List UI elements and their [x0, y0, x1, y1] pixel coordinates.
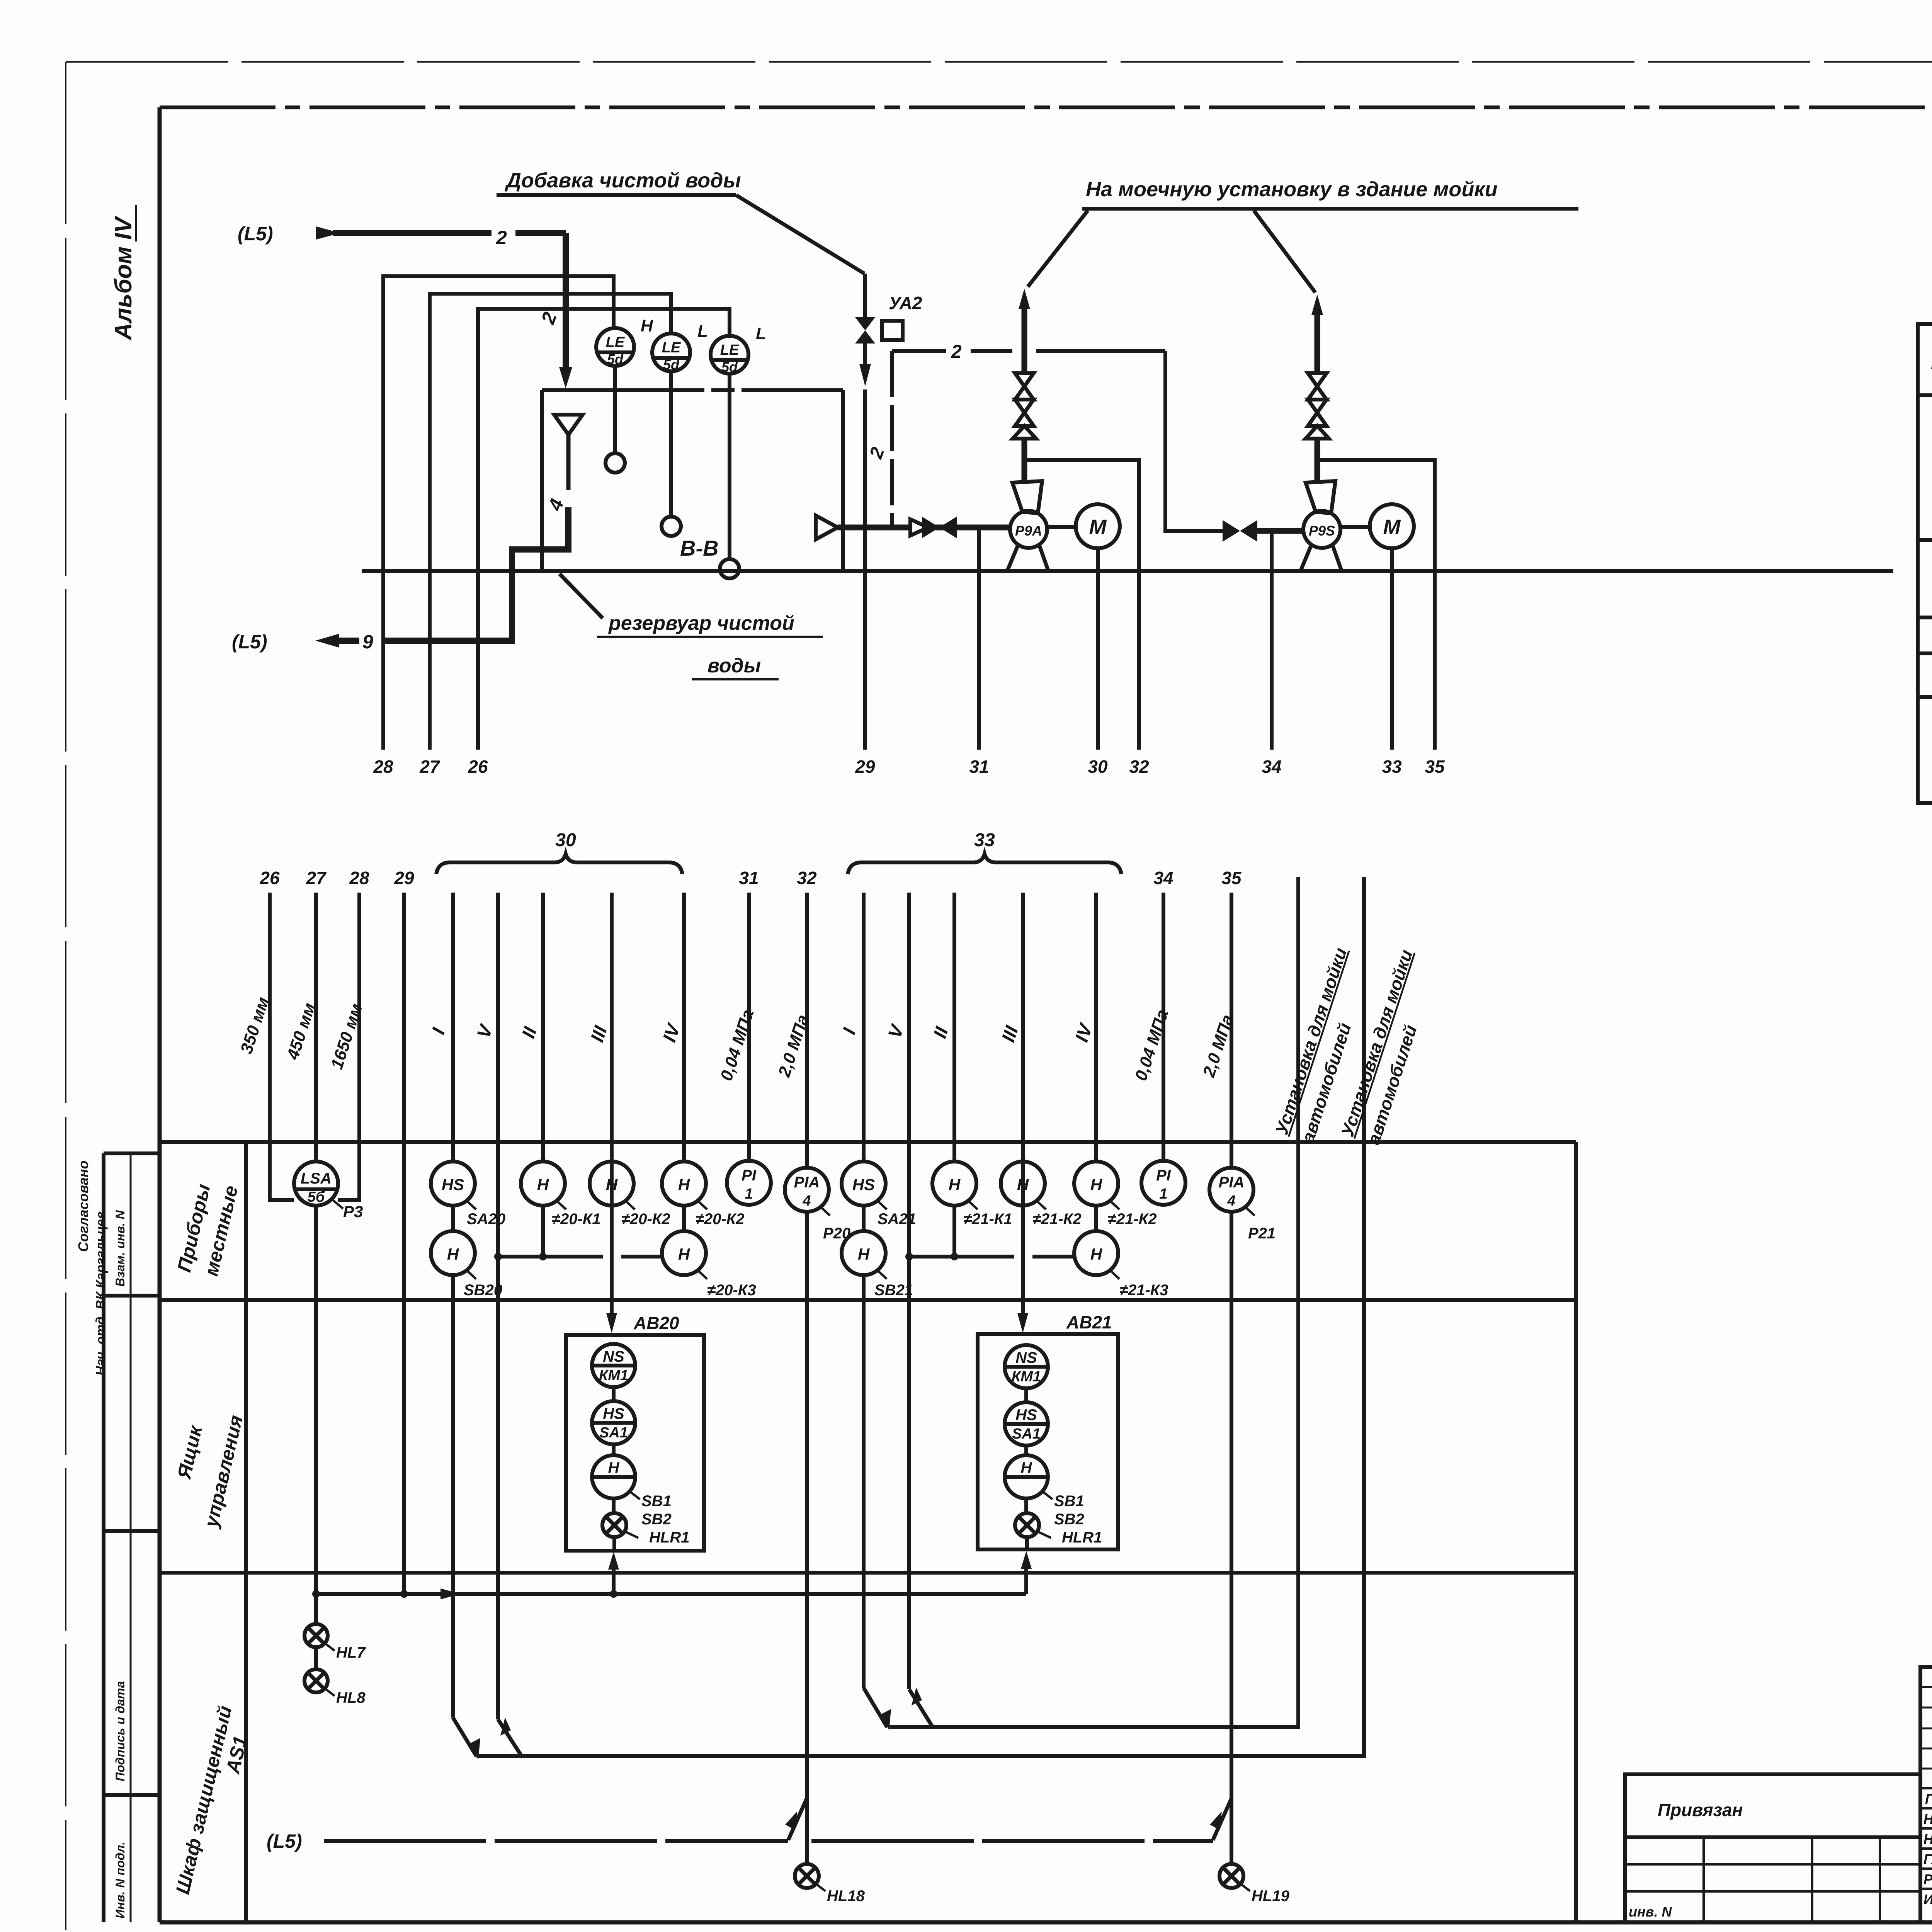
svg-text:32: 32 — [797, 868, 817, 888]
svg-text:V: V — [884, 1021, 908, 1041]
label ≠21-K2b — [1108, 1200, 1157, 1228]
personnel row Инженер Калмыков — [1923, 1891, 1932, 1907]
svg-text:Н: Н — [641, 316, 653, 335]
margin note Подпись и дата — [113, 1681, 127, 1781]
bubble HS SA1 (AB21) — [1005, 1388, 1048, 1446]
label ≠21-K2a — [1032, 1200, 1082, 1228]
svg-text:Инженер: Инженер — [1923, 1891, 1932, 1907]
svg-text:Шкаф защищенный: Шкаф защищенный — [172, 1704, 236, 1896]
svg-text:≠21-К2: ≠21-К2 — [1032, 1211, 1082, 1228]
hop diagonal to HL18 — [785, 1798, 807, 1840]
svg-text:Н: Н — [447, 1245, 459, 1263]
svg-text:L: L — [756, 324, 766, 343]
label ≠20-K2b — [696, 1200, 745, 1228]
leader diagonal to pump1 discharge — [1028, 211, 1088, 287]
row line III/IV — [1918, 651, 1932, 655]
svg-text:РI: РI — [1156, 1167, 1171, 1184]
svg-text:33: 33 — [974, 830, 995, 850]
svg-text:Н.контр: Н.контр — [1923, 1831, 1932, 1847]
labels SB1 SB2 HLR1 (AB21) — [1036, 1492, 1102, 1546]
bubble H 20-K3 — [662, 1231, 706, 1275]
AB21 feed stub with arrow — [1021, 1551, 1032, 1594]
margin note Согласовано — [75, 1160, 91, 1252]
lamp HL18 — [795, 1864, 819, 1888]
svg-text:ЅВ1: ЅВ1 — [1054, 1493, 1084, 1510]
outgoing wire to wash unit 2 — [476, 877, 1364, 1756]
svg-text:РIА: РIА — [794, 1174, 820, 1191]
svg-text:КМ1: КМ1 — [1012, 1369, 1041, 1385]
label ≠20-K2a — [621, 1200, 670, 1228]
frame top (dash-dot) — [160, 105, 1932, 109]
svg-text:4: 4 — [1227, 1193, 1235, 1209]
brace group 30 — [436, 854, 682, 874]
wire I chain down to bus B — [453, 1275, 480, 1759]
make-up water pipe with solenoid valve УА2 — [855, 274, 903, 386]
svg-text:Р21: Р21 — [1248, 1225, 1276, 1242]
svg-text:LЅА: LЅА — [301, 1170, 332, 1187]
svg-text:34: 34 — [1262, 757, 1281, 777]
wire 32 lower — [805, 893, 809, 1168]
label 2,0 МПа pump1 — [775, 1012, 813, 1080]
motor M2 — [1340, 504, 1414, 548]
caption На моечную установку в здание мойки — [1082, 178, 1578, 209]
control box AB20 — [566, 1335, 704, 1551]
wire 35 drop to HL19 — [1230, 1212, 1233, 1864]
wire: overflow pipe 4 jog — [383, 507, 568, 641]
svg-text:II: II — [930, 1024, 952, 1041]
bubble HS SA1 (AB20) — [592, 1387, 635, 1444]
pump2 discharge riser — [1306, 294, 1329, 483]
node (L5) outlet label — [232, 631, 267, 653]
motor M1 — [1047, 504, 1120, 548]
leader diagonal to UA2 pipe — [736, 195, 864, 274]
wire: inlet pipe drop into tank — [559, 233, 572, 388]
label 28 — [373, 757, 393, 777]
svg-text:управления: управления — [200, 1413, 247, 1530]
label 26 — [468, 757, 488, 777]
control box AB21 — [978, 1334, 1118, 1549]
svg-text:0,04 МПа: 0,04 МПа — [1131, 1007, 1172, 1083]
label IV2 rot — [1071, 1020, 1097, 1044]
pump P9A body — [1007, 481, 1048, 571]
caption резервуар чистой воды — [597, 612, 823, 679]
margin note Инв. № подл. — [113, 1842, 127, 1918]
svg-text:28: 28 — [373, 757, 393, 777]
brace group 33 — [848, 854, 1121, 874]
svg-text:НЅ: НЅ — [852, 1175, 875, 1194]
label 31 — [969, 757, 989, 777]
label 34 lower — [1153, 868, 1173, 888]
label HL7 — [325, 1643, 366, 1661]
pump1 discharge riser — [1013, 289, 1036, 483]
svg-text:26: 26 — [468, 757, 488, 777]
label 2,0 МПа pump2 — [1199, 1012, 1237, 1080]
svg-text:0,04 МПа: 0,04 МПа — [717, 1007, 758, 1083]
svg-text:Н: Н — [1090, 1245, 1103, 1263]
svg-text:2: 2 — [866, 444, 888, 461]
svg-text:IV: IV — [1071, 1020, 1097, 1044]
bubble H 21-K3 — [1074, 1231, 1118, 1275]
bubble H 21-K2b — [1074, 1162, 1118, 1231]
svg-text:≠20-К3: ≠20-К3 — [707, 1282, 756, 1299]
left margin strip cell borders — [104, 1153, 160, 1922]
svg-text:Взам. инв. N: Взам. инв. N — [113, 1210, 127, 1287]
svg-text:НLR1: НLR1 — [649, 1529, 689, 1546]
svg-text:Гл.спец: Гл.спец — [1923, 1851, 1932, 1867]
label ≠20-K3 — [697, 1269, 756, 1299]
label 31 lower — [739, 868, 759, 888]
label АВ21 — [1066, 1312, 1112, 1332]
label 33 — [1382, 757, 1402, 777]
svg-text:Н: Н — [678, 1245, 690, 1263]
svg-text:НЅ: НЅ — [442, 1175, 464, 1194]
margin note (Взам. инв. №) — [113, 1210, 127, 1287]
overflow funnel — [554, 415, 583, 490]
bubble HS SA20 — [431, 1162, 475, 1206]
svg-text:(L5): (L5) — [267, 1830, 302, 1852]
labels SB1 SB2 HLR1 (AB20) — [624, 1492, 689, 1546]
label SB20 — [464, 1269, 502, 1299]
leader diagonal to pump2 discharge — [1254, 211, 1315, 293]
svg-text:26: 26 — [259, 868, 280, 888]
svg-text:≠20-К2: ≠20-К2 — [621, 1211, 670, 1228]
label IV rot — [659, 1020, 685, 1044]
label 2 on bypass top run — [951, 342, 962, 362]
label 34 — [1262, 757, 1281, 777]
svg-text:НЅ: НЅ — [603, 1405, 624, 1422]
svg-text:29: 29 — [855, 757, 875, 777]
svg-text:НL7: НL7 — [336, 1644, 366, 1661]
svg-text:≠21-К1: ≠21-К1 — [963, 1211, 1012, 1228]
pump P9S body — [1301, 481, 1342, 571]
label 27 — [419, 757, 440, 777]
svg-text:Нач.отд.: Нач.отд. — [1923, 1811, 1932, 1827]
svg-text:≠21-К2: ≠21-К2 — [1108, 1211, 1157, 1228]
relay bus pump1 — [498, 1255, 662, 1259]
svg-text:Н: Н — [949, 1175, 961, 1194]
svg-text:32: 32 — [1129, 757, 1149, 777]
revision table row lines — [1920, 1687, 1932, 1889]
label ≠21-K1 — [963, 1200, 1012, 1228]
wire 33 motor stem — [1390, 548, 1394, 750]
svg-text:Н: Н — [1017, 1175, 1029, 1194]
svg-text:М: М — [1089, 515, 1107, 539]
svg-text:М: М — [1383, 515, 1401, 539]
bubble H SB20 — [431, 1206, 475, 1275]
label 26 lower — [259, 868, 280, 888]
svg-text:Н: Н — [858, 1245, 870, 1263]
svg-text:NЅ: NЅ — [1015, 1349, 1037, 1366]
cabinet bus AS1 — [312, 1588, 1026, 1599]
svg-text:35: 35 — [1425, 757, 1445, 777]
ground / water line — [362, 569, 1893, 573]
svg-text:L: L — [697, 322, 708, 341]
pump1 discharge side tap wire 32 — [1026, 460, 1139, 750]
label I rot — [428, 1025, 449, 1037]
label H at LE1 — [641, 316, 653, 335]
hop diagonal to HL19 — [1210, 1798, 1231, 1840]
label 30 group — [555, 830, 576, 850]
VARTABLE — [1918, 290, 1932, 861]
svg-text:ГИП: ГИП — [1925, 1791, 1932, 1807]
row label Приборы местные — [173, 1182, 242, 1278]
svg-text:Н: Н — [606, 1175, 618, 1194]
album label (Альбом IV) — [110, 205, 137, 341]
label АВ20 — [633, 1313, 679, 1333]
binding table box — [1625, 1774, 1920, 1922]
variants table header underline — [1918, 393, 1932, 397]
label 35 lower — [1221, 868, 1242, 888]
outlet arrow to (L5) — [315, 634, 359, 648]
node (L5) inlet label — [238, 223, 273, 245]
svg-text:НLR1: НLR1 — [1062, 1529, 1102, 1546]
label II2 rot — [930, 1024, 952, 1041]
svg-text:Согласовано: Согласовано — [75, 1160, 91, 1252]
reservoir left wall — [540, 390, 544, 571]
probe of LE1 — [605, 366, 625, 473]
row line IV/V — [1918, 695, 1932, 699]
svg-text:I: I — [839, 1025, 860, 1037]
svg-text:1: 1 — [745, 1186, 753, 1202]
row label Ящик управления — [173, 1413, 247, 1530]
svg-text:5б: 5б — [308, 1189, 325, 1205]
pump 1 suction pipe — [838, 519, 1010, 536]
gate valve on pump2 suction — [1223, 520, 1303, 542]
svg-text:(L5): (L5) — [232, 631, 267, 653]
binding table rows — [1625, 1837, 1920, 1891]
label L at LE3 — [756, 324, 766, 343]
wire IV pump2 — [1094, 893, 1098, 1162]
lamp HLR1 (AB20) — [602, 1498, 626, 1551]
svg-text:5d: 5d — [607, 351, 624, 367]
svg-text:4: 4 — [802, 1193, 811, 1209]
label Установка для мойки автомобилей 1 — [1271, 945, 1355, 1145]
svg-text:НL18: НL18 — [827, 1888, 865, 1905]
wire 28 lower — [338, 893, 359, 1200]
svg-text:РIА: РIА — [1219, 1174, 1245, 1191]
svg-text:≠20-К1: ≠20-К1 — [552, 1211, 601, 1228]
bubble H (AB20) — [592, 1444, 635, 1498]
fill pipe inside tank / wire 29 — [863, 389, 867, 750]
label III rot — [587, 1023, 611, 1044]
label 33 group — [974, 830, 995, 850]
reservoir right wall — [841, 390, 845, 571]
wire II pump1 — [541, 893, 545, 1162]
svg-text:Добавка чистой воды: Добавка чистой воды — [505, 169, 741, 192]
svg-text:NЅ: NЅ — [603, 1348, 624, 1365]
wire: inlet arrow pipe 2 — [316, 226, 566, 240]
label SB21 — [874, 1269, 913, 1299]
svg-text:29: 29 — [394, 868, 414, 888]
label 28 lower — [349, 868, 369, 888]
frame left — [158, 107, 162, 1922]
suction foot strainer — [816, 515, 838, 539]
bubble H (AB21) — [1005, 1446, 1048, 1498]
level transmitter LE 5d #3 — [711, 336, 748, 375]
wire 26 lower — [270, 893, 294, 1200]
grid label column divider — [244, 1142, 248, 1922]
bypass pipe 2 top run — [892, 349, 1165, 353]
level alarm bubble LSA 5б — [294, 1162, 338, 1206]
grid row divider 1 — [160, 1298, 1576, 1302]
lamp HLR1 (AB21) — [1015, 1498, 1039, 1549]
svg-text:Ящик: Ящик — [173, 1423, 207, 1482]
svg-text:Н: Н — [608, 1459, 620, 1476]
svg-text:Нач. отд. ВК Каргальцев: Нач. отд. ВК Каргальцев — [94, 1211, 108, 1376]
svg-text:1: 1 — [1159, 1186, 1167, 1202]
variants table outer box — [1918, 324, 1932, 803]
svg-text:Р9Ѕ: Р9Ѕ — [1309, 523, 1335, 539]
label SA20 — [466, 1200, 505, 1228]
wire 32 drop to HL18 — [805, 1212, 809, 1864]
svg-text:≠20-К2: ≠20-К2 — [696, 1211, 745, 1228]
label 29 — [855, 757, 875, 777]
svg-text:ЅА1: ЅА1 — [599, 1425, 628, 1441]
svg-text:30: 30 — [1088, 757, 1108, 777]
svg-text:ЅВ2: ЅВ2 — [641, 1511, 672, 1528]
instrument grid top border — [160, 1140, 1576, 1144]
label Р3 — [332, 1199, 363, 1221]
wire IV pump1 — [682, 893, 686, 1162]
label 32 lower — [797, 868, 817, 888]
label 2 on bypass riser — [866, 444, 888, 461]
bubble PI 1 pump2 — [1141, 1161, 1185, 1205]
svg-text:АВ20: АВ20 — [633, 1313, 679, 1333]
lamp HL19 — [1219, 1864, 1243, 1888]
svg-text:Н: Н — [678, 1175, 690, 1194]
label 350 мм — [237, 995, 273, 1056]
label 450 мм — [283, 1001, 319, 1062]
svg-text:Подпись и дата: Подпись и дата — [113, 1681, 127, 1781]
trim mark top line — [66, 61, 1932, 63]
svg-text:28: 28 — [349, 868, 369, 888]
label V2 rot — [884, 1021, 908, 1041]
label 30 — [1088, 757, 1108, 777]
lamp HL7 — [304, 1624, 328, 1669]
label УА2 — [889, 293, 922, 313]
margin note Нач. отд. ВК — [94, 1211, 108, 1376]
personnel row Нач.отд Шунский — [1923, 1811, 1932, 1827]
power wire (L5) bottom — [324, 1839, 1213, 1843]
svg-text:На моечную установку в здан: На моечную установку в здание мойки — [1086, 178, 1498, 201]
svg-text:Р3: Р3 — [343, 1202, 363, 1221]
label I2 rot — [839, 1025, 860, 1037]
leader to reservoir caption — [560, 574, 603, 618]
svg-text:III: III — [587, 1023, 611, 1044]
bubble NS KM1 (AB21) — [1005, 1345, 1048, 1388]
signal wire 26 top run — [478, 309, 730, 750]
reservoir B-8 top edge — [542, 388, 843, 392]
label 29 lower — [394, 868, 414, 888]
svg-text:Р9А: Р9А — [1015, 523, 1042, 539]
label 0,04 МПа pump1 — [717, 1007, 758, 1083]
label 0,04 МПа pump2 — [1131, 1007, 1172, 1083]
grid right border — [1574, 1142, 1578, 1922]
svg-text:Рук.гр.: Рук.гр. — [1923, 1871, 1932, 1887]
LSA stem down — [314, 1206, 318, 1624]
svg-text:инв. N: инв. N — [1629, 1904, 1672, 1920]
wire I2 chain down to bus A — [864, 1275, 891, 1730]
bubble PIA 4 pump1 — [785, 1168, 829, 1212]
svg-text:I: I — [428, 1025, 449, 1037]
label B-8 — [680, 536, 719, 560]
label 35 — [1425, 757, 1445, 777]
svg-text:35: 35 — [1221, 868, 1242, 888]
wire 29 lower — [402, 893, 406, 1594]
svg-text:5d: 5d — [663, 357, 680, 372]
svg-text:резервуар чистой: резервуар чистой — [608, 612, 794, 634]
bubble H 21-K1 — [932, 1162, 976, 1260]
bubble NS KM1 (AB20) — [592, 1344, 635, 1387]
wire 30 motor stem — [1096, 548, 1100, 750]
svg-text:4: 4 — [544, 496, 568, 514]
svg-text:31: 31 — [739, 868, 759, 888]
svg-text:НL19: НL19 — [1252, 1888, 1290, 1905]
svg-text:II: II — [518, 1024, 541, 1041]
lamp HL8 — [304, 1669, 328, 1692]
svg-text:2: 2 — [537, 309, 561, 327]
svg-text:LE: LE — [720, 342, 740, 358]
TITLEBLOCK — [1625, 1667, 1932, 1922]
label 9 on outlet — [362, 631, 373, 653]
svg-text:30: 30 — [555, 830, 576, 850]
svg-text:воды: воды — [707, 655, 761, 677]
label V rot — [473, 1021, 497, 1041]
row line II/III — [1918, 616, 1932, 619]
bubble H 20-K2a — [590, 1162, 634, 1206]
title block outer box — [1920, 1667, 1932, 1922]
svg-text:РI: РI — [742, 1167, 757, 1184]
binding table verticals — [1704, 1837, 1880, 1922]
label L at LE2 — [697, 322, 708, 341]
label HL18 — [815, 1883, 865, 1905]
bubble PI 1 pump1 — [727, 1161, 771, 1205]
svg-text:34: 34 — [1153, 868, 1173, 888]
svg-text:IV: IV — [659, 1020, 685, 1044]
binding label Привязан — [1658, 1800, 1743, 1820]
probe of LE3 — [720, 374, 739, 578]
node (L5) bottom label — [267, 1830, 302, 1852]
signal wire 28 top run — [383, 276, 614, 750]
bubble HS SA21 — [842, 1162, 886, 1206]
svg-text:LE: LE — [662, 340, 681, 356]
wire I pump1 — [451, 893, 455, 1162]
row line I/II — [1918, 538, 1932, 542]
pressure tap wire 34 — [1270, 531, 1274, 750]
label 27 lower — [306, 868, 327, 888]
label HL19 — [1240, 1883, 1290, 1905]
label P21 — [1244, 1206, 1276, 1242]
svg-text:350 мм: 350 мм — [237, 995, 273, 1056]
bubble PIA 4 pump2 — [1209, 1168, 1253, 1212]
svg-text:V: V — [473, 1021, 497, 1041]
svg-text:27: 27 — [306, 868, 327, 888]
wire 34 lower — [1162, 893, 1165, 1161]
wire 35 lower — [1230, 893, 1233, 1168]
binding label инв N — [1629, 1904, 1672, 1920]
svg-text:Инв. N подл.: Инв. N подл. — [113, 1842, 127, 1918]
svg-text:ЅВ2: ЅВ2 — [1054, 1511, 1084, 1528]
label P20 — [820, 1206, 850, 1242]
svg-text:ЅВ1: ЅВ1 — [641, 1493, 672, 1510]
wire I pump2 — [862, 893, 866, 1162]
label 2 on drop pipe — [537, 309, 561, 327]
svg-text:В-В: В-В — [680, 536, 719, 560]
level transmitter LE 5d #1 — [596, 328, 634, 367]
row label Шкаф защищенный AS1 — [172, 1704, 251, 1896]
bypass pipe 2 drop to pump2 suction — [1165, 351, 1223, 531]
svg-text:LE: LE — [606, 334, 625, 350]
